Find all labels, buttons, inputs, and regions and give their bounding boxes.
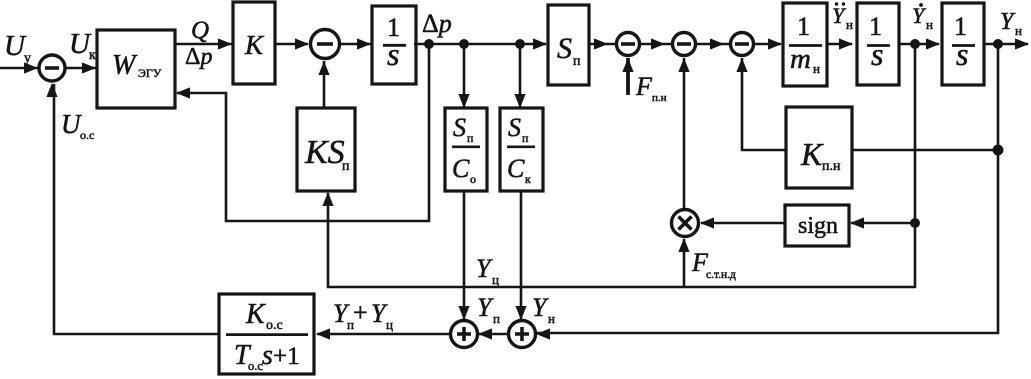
svg-text:s: s (871, 36, 883, 72)
svg-text:Y: Y (532, 293, 549, 322)
svg-text:н: н (813, 61, 820, 76)
svg-text:sign: sign (798, 213, 838, 239)
svg-text:+1: +1 (273, 343, 300, 370)
svg-text:Δp: Δp (422, 9, 452, 38)
svg-text:s: s (262, 340, 273, 371)
svg-text:п: п (467, 131, 474, 145)
svg-text:S: S (508, 113, 521, 142)
svg-text:K: K (245, 299, 266, 330)
svg-text:S: S (557, 32, 572, 65)
svg-text:н: н (846, 17, 853, 32)
svg-text:о: о (470, 172, 476, 186)
svg-text:п: п (522, 131, 529, 145)
svg-text:о.с: о.с (80, 128, 94, 142)
svg-text:ц: ц (492, 272, 499, 287)
svg-text:у: у (24, 51, 31, 66)
svg-text:н: н (926, 17, 933, 32)
svg-text:Δp: Δp (185, 44, 212, 70)
svg-text:ЭГУ: ЭГУ (138, 66, 162, 80)
svg-text:Y: Y (476, 254, 493, 283)
svg-text:KS: KS (304, 134, 345, 171)
svg-text:Q: Q (191, 17, 209, 44)
svg-text:н: н (1015, 23, 1022, 38)
svg-text:Y: Y (477, 293, 494, 322)
svg-text:п.н: п.н (822, 159, 841, 174)
svg-text:ц: ц (386, 317, 393, 332)
svg-text:к: к (525, 172, 531, 186)
svg-text:U: U (61, 109, 82, 139)
svg-text:m: m (790, 43, 811, 75)
svg-text:s: s (956, 36, 968, 72)
svg-text:W: W (112, 50, 138, 81)
svg-text:K: K (800, 136, 824, 172)
svg-text:п.н: п.н (652, 92, 667, 104)
svg-text:S: S (453, 113, 466, 142)
svg-text:F: F (635, 72, 653, 101)
svg-text:п: п (573, 54, 581, 69)
svg-text:п: п (493, 311, 500, 326)
svg-text:н: н (548, 311, 555, 326)
svg-text:с.т.н.д: с.т.н.д (706, 269, 736, 281)
svg-text:C: C (507, 154, 525, 183)
svg-text:п: п (342, 159, 350, 174)
svg-text:s: s (387, 36, 399, 72)
svg-text:о.с: о.с (266, 318, 283, 333)
svg-text:C: C (452, 154, 470, 183)
svg-text:1: 1 (797, 12, 810, 41)
svg-text:к: к (89, 48, 96, 63)
svg-text:K: K (244, 30, 265, 60)
svg-text:+: + (353, 298, 368, 327)
